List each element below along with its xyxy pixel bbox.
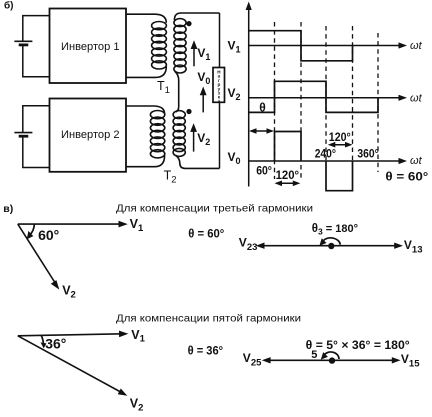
junction dot (fifth) — [329, 357, 335, 363]
vector V25 — [262, 357, 332, 363]
interval arrow 120 bottom — [275, 181, 301, 187]
load resistor — [213, 68, 225, 103]
svg-text:Инвертор 1: Инвертор 1 — [61, 41, 120, 53]
V1 waveform trace — [249, 31, 353, 61]
inverter box 2 — [50, 99, 127, 172]
dashed grid line 60deg — [274, 22, 276, 179]
transformer T1 secondary winding — [174, 13, 220, 112]
V1 axis — [249, 42, 407, 48]
svg-text:Для компенсации третьей гармон: Для компенсации третьей гармоники — [116, 204, 313, 215]
vector V23 — [256, 243, 331, 249]
vector V15 — [332, 357, 401, 363]
wire battery1 to inverter1 — [23, 16, 50, 77]
angle arc 60 — [27, 224, 35, 239]
svg-text:120°: 120° — [276, 170, 300, 182]
svg-text:ωt: ωt — [410, 93, 423, 105]
vertical axis — [246, 2, 252, 187]
transformer T2 primary winding — [126, 106, 165, 167]
svg-text:360°: 360° — [357, 149, 379, 161]
wire load right side — [219, 13, 221, 168]
dashed grid line 360deg — [377, 33, 379, 172]
svg-text:120°: 120° — [329, 132, 351, 144]
interval arrow 120 top — [328, 142, 353, 148]
vector V1 (third) — [18, 221, 128, 228]
dashed grid line 300deg — [352, 26, 354, 161]
arrow V2 (circuit) — [190, 123, 197, 151]
V0 waveform pulse down — [326, 161, 353, 191]
rotation arc 180 (fifth) — [321, 352, 339, 360]
V0 axis — [249, 158, 407, 164]
svg-text:60°: 60° — [38, 228, 59, 243]
rotation arc 180 (third) — [319, 238, 340, 246]
transformer T2 secondary winding — [173, 111, 219, 169]
vector V2 (fifth) — [18, 336, 128, 396]
angle arc 36 — [41, 335, 47, 348]
svg-text:в): в) — [3, 203, 13, 215]
svg-text:θ: θ — [259, 101, 266, 115]
V0 waveform pulse up — [275, 132, 302, 162]
wire battery2 to inverter2 — [23, 106, 50, 168]
V2 waveform trace — [249, 81, 378, 112]
svg-text:240°: 240° — [315, 149, 337, 161]
dashed grid line 120deg — [300, 22, 302, 132]
V2 axis — [249, 95, 407, 101]
junction dot (third) — [328, 243, 334, 249]
svg-text:36°: 36° — [45, 337, 66, 352]
dashed grid line 240deg — [325, 26, 327, 161]
svg-text:θ = 60°: θ = 60° — [188, 228, 224, 240]
theta interval arrow — [249, 128, 274, 134]
vector V13 — [331, 243, 403, 249]
svg-text:θ = 60°: θ = 60° — [385, 171, 428, 183]
vector V1 (fifth) — [18, 331, 129, 338]
arrow V0 (circuit) — [200, 87, 207, 113]
polarity dot T1 — [186, 21, 191, 26]
svg-text:ωt: ωt — [410, 40, 423, 52]
polarity dot T2 — [186, 109, 191, 114]
svg-text:Для компенсации пятой гармоник: Для компенсации пятой гармоники — [116, 314, 301, 325]
vector V2 (third) — [18, 224, 60, 290]
svg-text:θ = 36°: θ = 36° — [188, 345, 224, 357]
svg-text:б): б) — [4, 0, 14, 12]
arrow V1 (circuit) — [191, 40, 198, 66]
svg-text:60°: 60° — [256, 166, 272, 178]
svg-text:θ = 5° × 36° = 180°: θ = 5° × 36° = 180° — [306, 338, 410, 352]
battery V1 source — [14, 41, 32, 45]
battery V2 source — [14, 133, 32, 137]
svg-text:ωt: ωt — [410, 155, 423, 167]
svg-text:5: 5 — [311, 349, 317, 361]
inverter box 1 — [50, 9, 127, 84]
svg-text:Инвертор 2: Инвертор 2 — [61, 129, 120, 141]
transformer T1 primary winding — [126, 14, 166, 77]
